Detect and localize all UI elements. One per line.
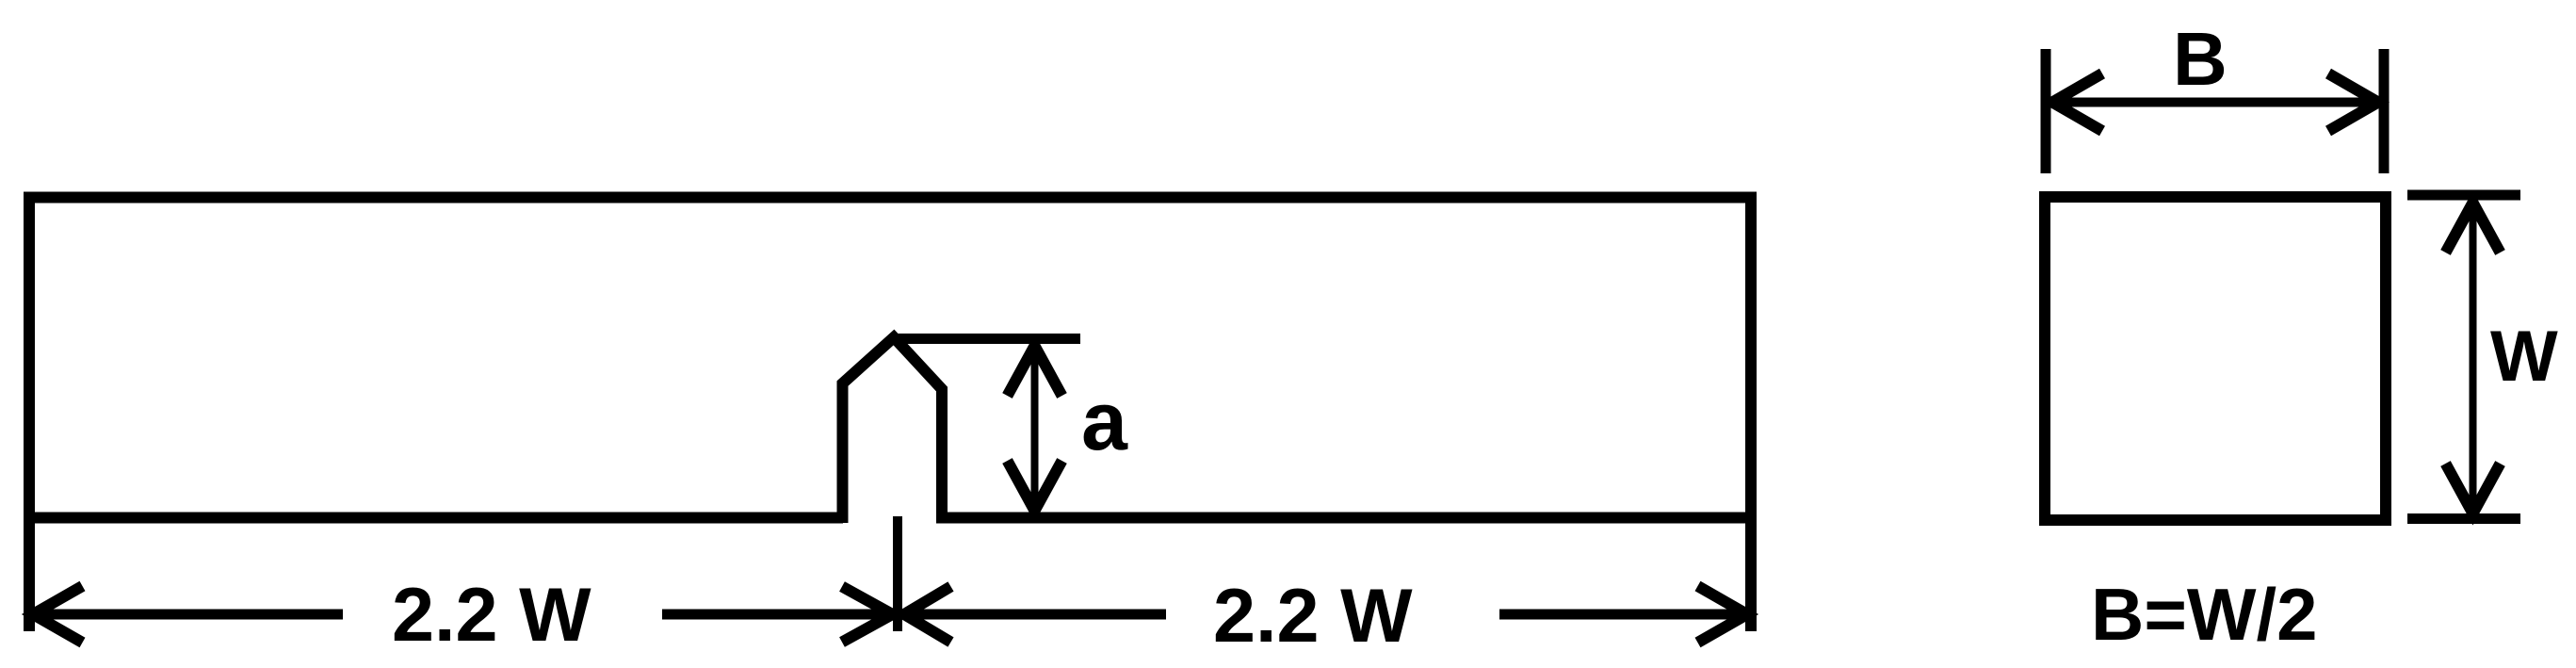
- center tick below notch: [893, 516, 902, 631]
- B dimension left tick: [2041, 49, 2051, 173]
- W dimension arrowhead top: [2446, 203, 2501, 253]
- W dimension shaft: [2470, 204, 2477, 513]
- W dimension arrowhead bottom: [2446, 464, 2501, 513]
- specimen beam right edge: [1745, 192, 1757, 632]
- left 2.2W dimension arrowhead left: [33, 586, 83, 643]
- right 2.2W dimension arrowhead left: [904, 587, 951, 643]
- W dimension top tick: [2407, 190, 2520, 201]
- right 2.2W dimension arrowhead right: [1698, 586, 1748, 643]
- specimen beam bottom edge left segment: [24, 513, 843, 524]
- B dimension arrowhead right: [2328, 73, 2378, 131]
- right 2.2W dimension shaft right part: [1499, 610, 1746, 620]
- svg-text:a: a: [1081, 374, 1128, 467]
- notch profile: [843, 337, 943, 523]
- B dimension arrowhead left: [2052, 73, 2102, 131]
- specimen beam bottom edge right segment: [936, 513, 1757, 524]
- svg-text:W: W: [2490, 317, 2558, 397]
- B dimension shaft: [2053, 98, 2377, 107]
- left 2.2W dimension shaft right part: [662, 610, 892, 620]
- notch depth reference line: [891, 334, 1080, 344]
- svg-text:B=W/2: B=W/2: [2091, 573, 2318, 656]
- specimen beam left edge: [24, 192, 35, 632]
- right 2.2W dimension shaft left part: [904, 610, 1166, 620]
- svg-text:2.2 W: 2.2 W: [1213, 574, 1413, 659]
- specimen beam top edge: [24, 192, 1757, 204]
- left 2.2W dimension arrowhead right: [842, 587, 893, 643]
- B dimension right tick: [2379, 49, 2390, 173]
- cross-section square: [2045, 197, 2386, 520]
- W dimension bottom tick: [2407, 513, 2520, 524]
- dimension a arrow shaft: [1031, 346, 1039, 511]
- svg-text:2.2 W: 2.2 W: [392, 573, 591, 658]
- dimension a arrowhead top: [1008, 346, 1062, 396]
- svg-text:B: B: [2173, 17, 2228, 101]
- dimension a arrowhead bottom: [1008, 461, 1062, 511]
- left 2.2W dimension shaft left part: [35, 610, 343, 620]
